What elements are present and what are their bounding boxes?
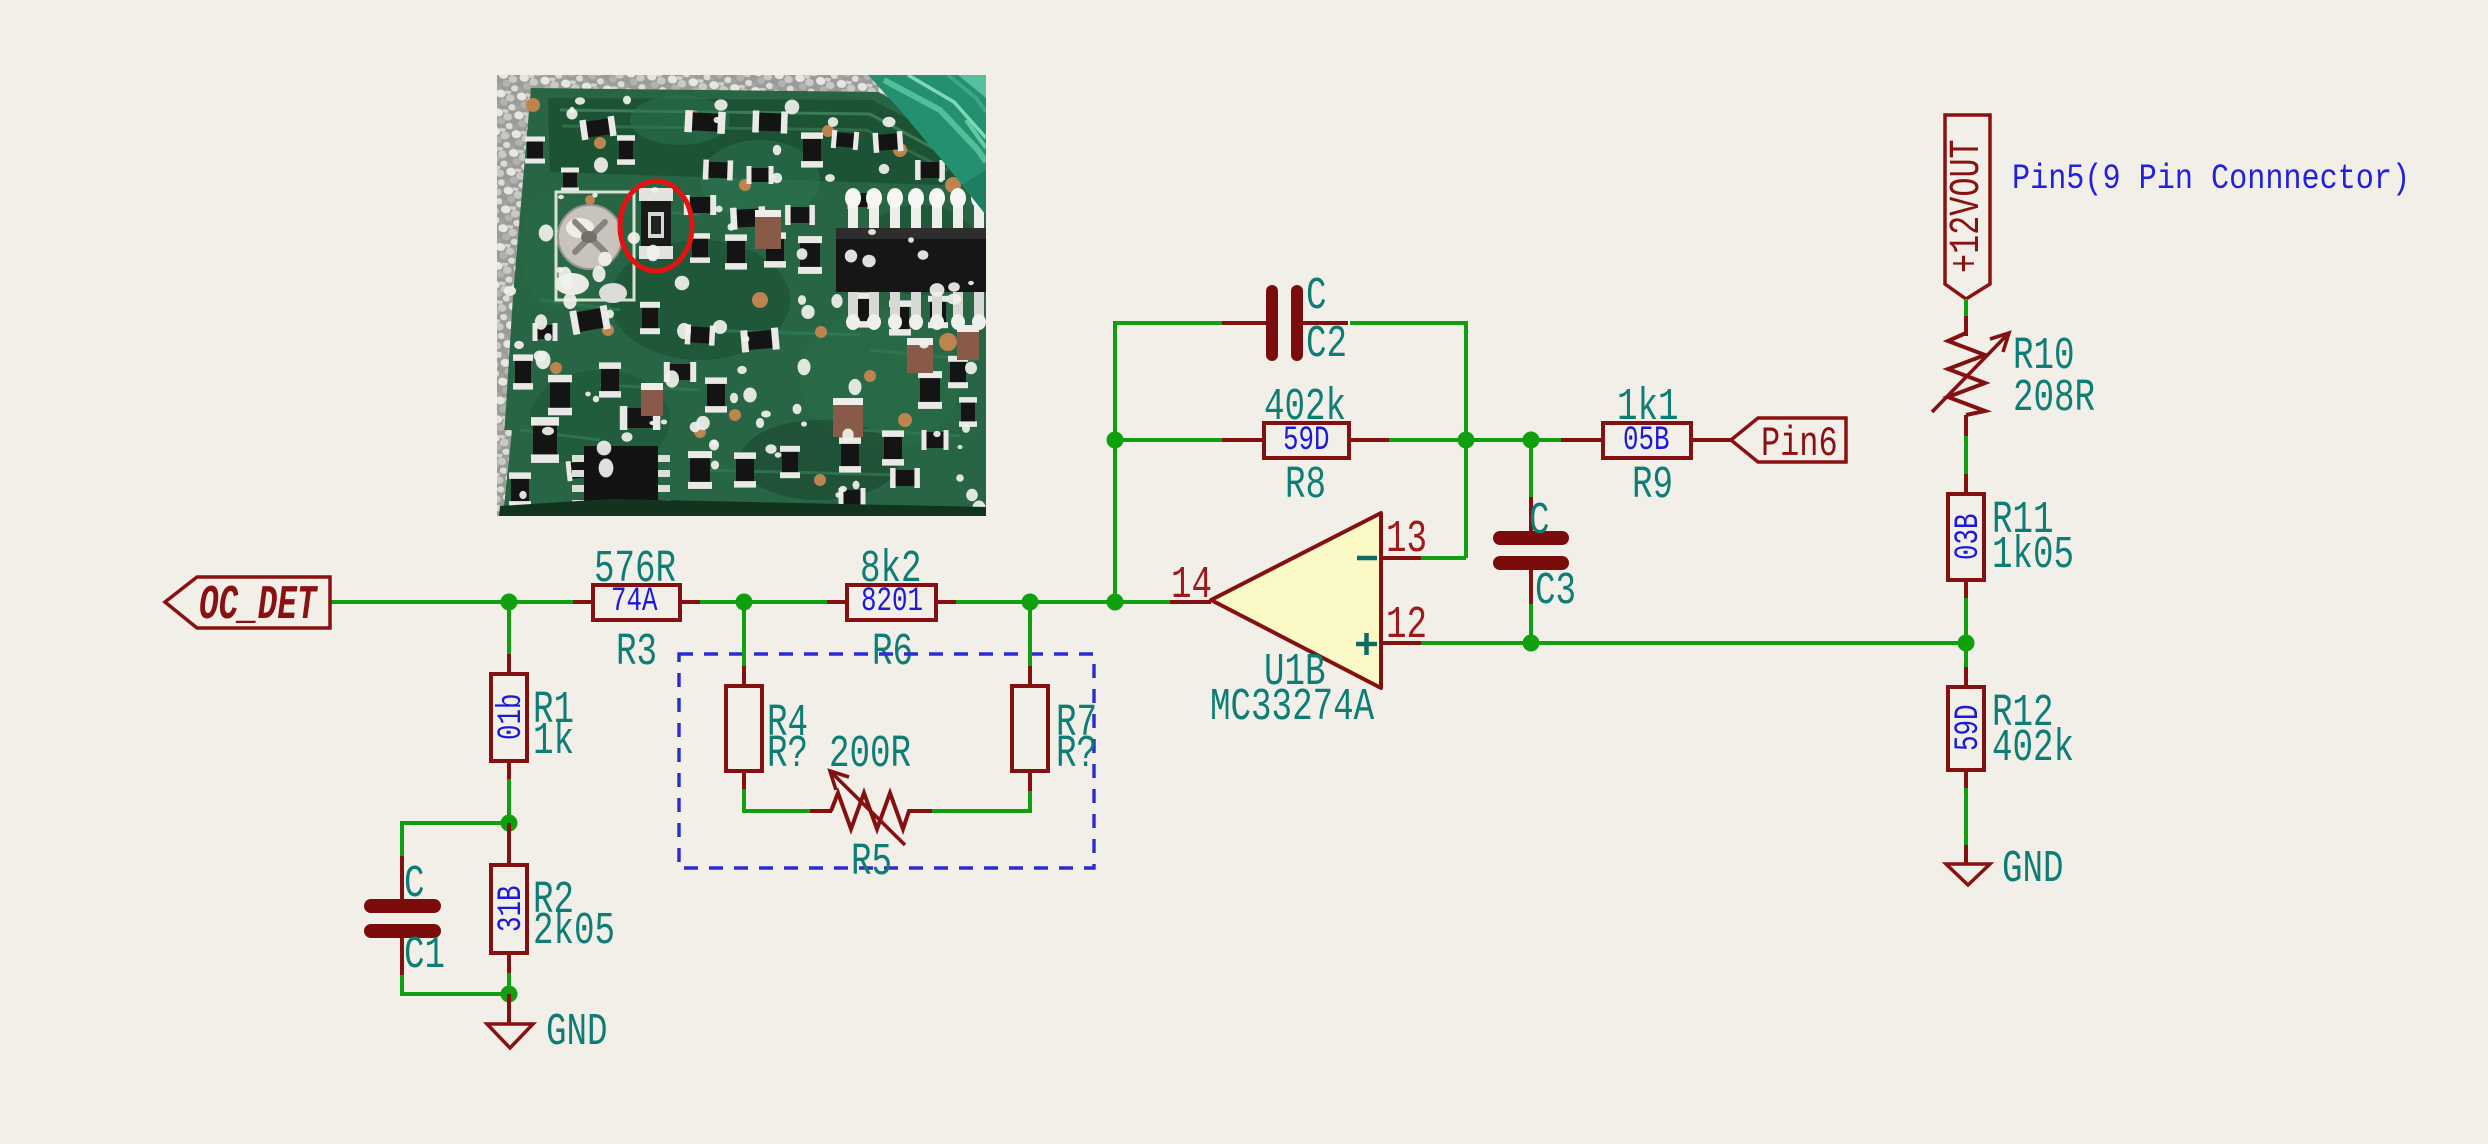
- capacitor C3: [1500, 440, 1576, 643]
- node junction at R4 branch: [736, 594, 753, 611]
- label OC_DET: [165, 577, 330, 633]
- svg-text:208R: 208R: [2013, 373, 2095, 424]
- resistor R7: [1012, 602, 1097, 791]
- svg-text:GND: GND: [546, 1007, 608, 1058]
- PCB photo: [497, 75, 987, 516]
- node junction at C3 top: [1523, 432, 1540, 449]
- wire R8 row left: [1115, 438, 1224, 442]
- pin 12 of U1B: [1381, 600, 1427, 651]
- ground GND2: [1946, 844, 2064, 895]
- svg-text:Pin5(9 Pin Connnector): Pin5(9 Pin Connnector): [2012, 159, 2410, 199]
- svg-text:C: C: [1306, 271, 1327, 322]
- node junction at C1 R2 GND: [501, 986, 518, 1003]
- capacitor C1: [371, 856, 445, 981]
- wire C1 bottom branch: [402, 975, 509, 994]
- svg-text:R?: R?: [767, 729, 808, 780]
- resistor R11: [1948, 474, 2074, 643]
- wire main horizontal net OC_DET: [331, 600, 1172, 604]
- node junction at feedback branch: [1107, 594, 1124, 611]
- svg-text:OC_DET: OC_DET: [199, 579, 318, 633]
- svg-text:MC33274A: MC33274A: [1210, 682, 1374, 733]
- svg-text:200R: 200R: [829, 729, 911, 780]
- resistor R1: [491, 602, 574, 823]
- wire R5 to R7: [932, 789, 1030, 811]
- node junction at R7 branch: [1022, 594, 1039, 611]
- node junction at C3 bottom: [1523, 635, 1540, 652]
- svg-text:59D: 59D: [1950, 704, 1988, 751]
- svg-text:31B: 31B: [493, 885, 531, 932]
- dashed selection box around R4 R5 R7: [679, 654, 1094, 868]
- resistor R9: [1561, 382, 1731, 511]
- svg-text:Pin6: Pin6: [1761, 421, 1838, 468]
- svg-text:R8: R8: [1285, 460, 1326, 511]
- label Pin6: [1731, 418, 1846, 469]
- svg-text:1k: 1k: [533, 716, 574, 767]
- node junction at C2 vertical: [1458, 432, 1475, 449]
- node junction below R1: [501, 815, 518, 832]
- wire feedback vertical and top: [1115, 323, 1224, 602]
- power symbol +12VOUT: [1944, 115, 1992, 318]
- svg-text:C1: C1: [404, 930, 445, 981]
- resistor R4: [726, 602, 808, 791]
- svg-text:R9: R9: [1632, 460, 1673, 511]
- wire R4 to R5: [744, 789, 812, 811]
- node junction right column: [1958, 635, 1975, 652]
- variable resistor R10: [1932, 316, 2095, 476]
- wire R8 to R9: [1389, 438, 1563, 442]
- svg-text:R3: R3: [616, 627, 657, 678]
- svg-text:C: C: [1529, 496, 1550, 547]
- svg-text:GND: GND: [2002, 844, 2064, 895]
- op-amp U1B: [1210, 513, 1381, 733]
- svg-text:8k2: 8k2: [860, 544, 922, 595]
- svg-text:2k05: 2k05: [533, 906, 615, 957]
- svg-text:C: C: [404, 859, 425, 910]
- svg-text:402k: 402k: [1992, 723, 2074, 774]
- wire pin13 to feedback: [1421, 556, 1466, 560]
- node junction at R1 branch: [501, 594, 518, 611]
- potentiometer R5: [810, 729, 934, 888]
- svg-text:12: 12: [1386, 600, 1427, 651]
- svg-text:R?: R?: [1056, 729, 1097, 780]
- ground GND1: [487, 994, 608, 1058]
- svg-text:03B: 03B: [1950, 513, 1988, 560]
- node junction feedback at R8 row: [1107, 432, 1124, 449]
- resistor R2: [491, 823, 615, 994]
- wire C1 top branch: [402, 823, 509, 858]
- pin 13 of U1B: [1381, 514, 1427, 565]
- svg-text:1k05: 1k05: [1992, 530, 2074, 581]
- svg-text:C3: C3: [1535, 566, 1576, 617]
- capacitor C2: [1222, 271, 1348, 370]
- svg-text:13: 13: [1386, 514, 1427, 565]
- svg-text:R5: R5: [851, 837, 892, 888]
- resistor R6: [827, 544, 956, 678]
- resistor R12: [1948, 643, 2074, 847]
- wire C2 to inverting input corner: [1350, 323, 1466, 558]
- svg-text:14: 14: [1171, 560, 1212, 611]
- svg-text:R6: R6: [872, 627, 913, 678]
- svg-text:C2: C2: [1306, 319, 1347, 370]
- svg-text:01b: 01b: [493, 693, 531, 740]
- pin 14 of U1B: [1170, 560, 1212, 611]
- svg-text:402k: 402k: [1264, 382, 1346, 433]
- svg-text:1k1: 1k1: [1617, 382, 1679, 433]
- svg-text:+12VOUT: +12VOUT: [1944, 139, 1992, 273]
- resistor R8: [1222, 382, 1391, 511]
- wire pin12 to right column: [1421, 641, 1966, 645]
- resistor R3: [573, 544, 700, 678]
- svg-text:576R: 576R: [594, 544, 676, 595]
